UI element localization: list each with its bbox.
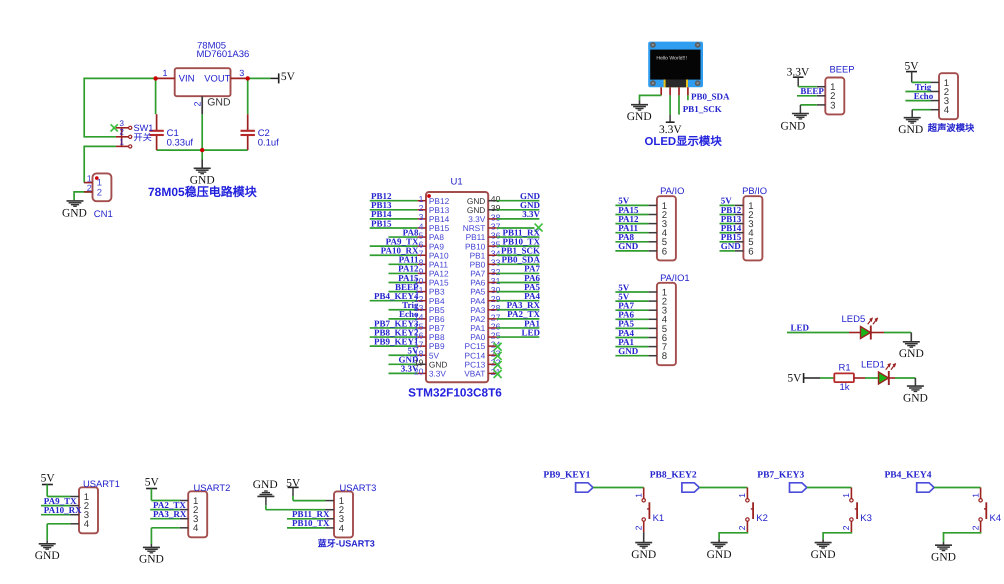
svg-text:CN1: CN1 [94,209,113,220]
svg-text:VIN: VIN [179,73,195,84]
svg-text:PB8_KEY2: PB8_KEY2 [650,471,697,481]
svg-text:STM32F103C8T6: STM32F103C8T6 [408,386,502,400]
svg-text:2: 2 [970,525,980,530]
svg-text:1k: 1k [840,382,850,393]
svg-text:Hello World!!!: Hello World!!! [656,55,686,61]
svg-text:PB1_SCK: PB1_SCK [683,104,722,114]
svg-text:BEEP: BEEP [830,63,855,74]
svg-text:2: 2 [737,525,747,530]
svg-text:GND: GND [903,392,928,404]
svg-text:MD7601A36: MD7601A36 [197,49,250,60]
svg-text:4: 4 [339,523,345,534]
svg-text:5V: 5V [904,60,919,72]
svg-text:3.3V: 3.3V [659,124,682,136]
svg-text:K3: K3 [860,513,872,524]
svg-text:2: 2 [87,183,92,193]
svg-text:开关: 开关 [134,133,152,143]
svg-text:4: 4 [84,519,90,530]
svg-text:GND: GND [35,550,60,562]
svg-text:2: 2 [119,127,124,136]
svg-text:1: 1 [162,68,167,78]
svg-text:LED: LED [521,327,540,337]
svg-text:PA10_RX: PA10_RX [44,505,82,515]
svg-text:GND: GND [631,549,656,561]
svg-text:2: 2 [97,187,102,198]
svg-text:2: 2 [634,525,644,530]
svg-text:PB/IO: PB/IO [742,185,767,196]
svg-text:4: 4 [193,523,199,534]
svg-text:GND: GND [811,549,836,561]
svg-text:LED1: LED1 [861,360,885,371]
svg-text:GND: GND [62,208,87,220]
svg-text:GND: GND [780,120,805,132]
svg-text:GND: GND [207,96,231,108]
svg-text:K4: K4 [990,513,1002,524]
svg-text:PA/IO: PA/IO [660,185,684,196]
svg-text:PB7_KEY3: PB7_KEY3 [757,471,804,481]
svg-text:超声波模块: 超声波模块 [927,122,975,133]
svg-text:GND: GND [618,241,639,251]
svg-text:K1: K1 [653,513,665,524]
svg-text:1: 1 [841,493,851,498]
svg-text:OLED显示模块: OLED显示模块 [645,135,723,148]
svg-text:GND: GND [618,346,639,356]
svg-text:K2: K2 [756,513,768,524]
svg-text:1: 1 [737,493,747,498]
svg-text:PA3_RX: PA3_RX [153,509,187,519]
svg-text:5V: 5V [145,477,160,489]
svg-text:R1: R1 [839,363,851,374]
svg-text:Echo: Echo [914,91,934,101]
svg-text:20: 20 [414,367,424,377]
svg-text:2: 2 [192,101,202,106]
svg-text:GND: GND [139,554,164,566]
svg-text:6: 6 [662,246,667,257]
svg-text:5V: 5V [41,473,56,485]
svg-text:USART3: USART3 [340,482,377,493]
svg-text:2: 2 [841,525,851,530]
svg-text:PB9_KEY1: PB9_KEY1 [543,471,590,481]
svg-text:6: 6 [748,246,753,257]
svg-text:1: 1 [970,493,980,498]
svg-text:3: 3 [830,100,835,111]
svg-text:8: 8 [662,351,667,362]
svg-text:0.1uf: 0.1uf [258,137,279,148]
svg-text:3.3V: 3.3V [429,369,447,379]
svg-text:PB4_KEY4: PB4_KEY4 [885,471,932,481]
svg-text:VOUT: VOUT [204,72,230,83]
svg-text:78M05稳压电路模块: 78M05稳压电路模块 [148,185,258,199]
svg-text:蓝牙-USART3: 蓝牙-USART3 [318,539,375,549]
svg-text:BEEP: BEEP [800,86,824,96]
svg-text:4: 4 [944,105,950,116]
svg-text:PB15: PB15 [371,218,392,228]
svg-text:LED: LED [791,323,810,333]
svg-text:3.3V: 3.3V [522,209,540,219]
svg-text:GND: GND [898,124,923,136]
svg-text:1: 1 [634,493,644,498]
svg-text:GND: GND [721,241,742,251]
svg-text:VBAT: VBAT [464,369,485,379]
svg-text:GND: GND [931,551,956,563]
svg-text:GND: GND [707,549,732,561]
svg-text:U1: U1 [451,177,463,188]
svg-text:GND: GND [899,348,924,360]
svg-text:PA/IO1: PA/IO1 [660,272,690,283]
svg-text:3: 3 [239,68,244,78]
svg-text:GND: GND [627,111,652,123]
svg-text:USART1: USART1 [83,478,120,489]
svg-text:LED5: LED5 [842,314,866,325]
svg-text:5V: 5V [281,71,296,83]
svg-text:PB0_SDA: PB0_SDA [691,92,730,102]
svg-text:0.33uf: 0.33uf [167,137,194,148]
svg-text:GND: GND [253,479,278,491]
svg-text:PB10_TX: PB10_TX [292,518,330,528]
svg-text:1: 1 [119,137,124,146]
svg-text:5V: 5V [787,373,802,385]
svg-text:USART2: USART2 [194,482,231,493]
